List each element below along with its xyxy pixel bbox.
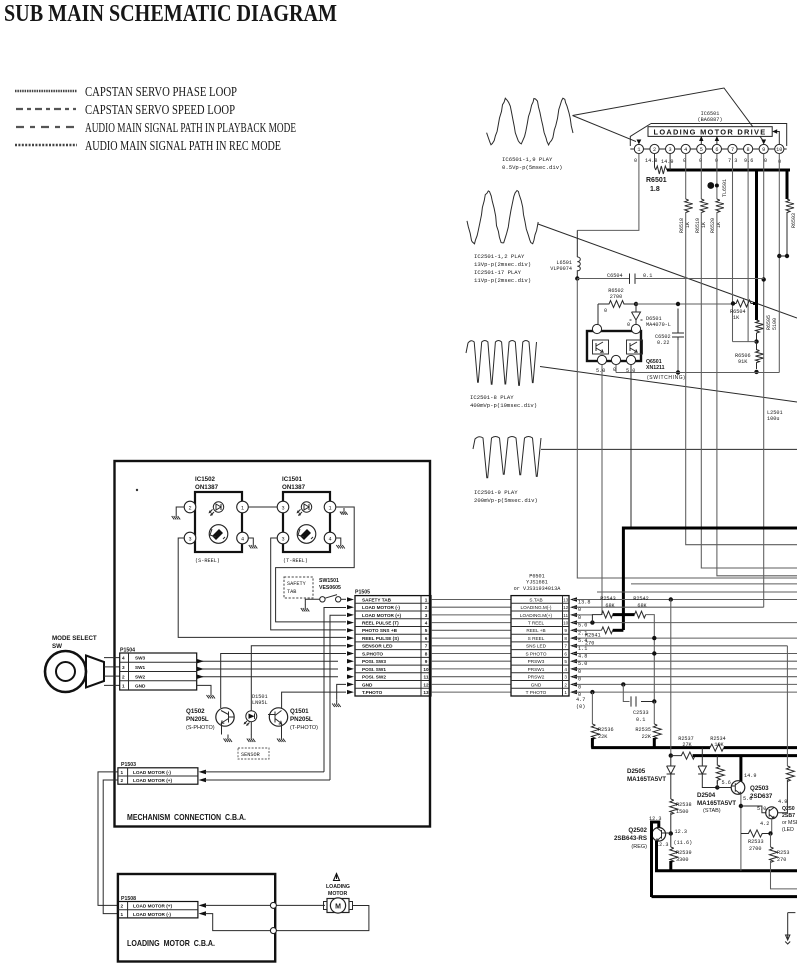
wire PRSW2 row3: [573, 676, 797, 678]
svg-text:R2536: R2536: [598, 727, 614, 733]
svg-text:27K: 27K: [682, 742, 692, 748]
svg-text:11: 11: [563, 613, 568, 618]
svg-text:0: 0: [604, 308, 607, 314]
svg-text:1.8: 1.8: [650, 186, 660, 193]
Q6501 pin bottom3: [626, 355, 635, 364]
svg-text:SENSOR LED: SENSOR LED: [362, 644, 393, 649]
wire pin5 rail: [700, 154, 702, 199]
svg-text:12: 12: [563, 605, 569, 610]
wire Q1502 collector row8: [221, 654, 346, 709]
svg-text:3: 3: [281, 506, 284, 512]
wire C2533 down to R2535: [653, 702, 655, 725]
svg-text:IC2501-8 PLAY: IC2501-8 PLAY: [470, 394, 514, 401]
wire IC1501 pin3 row5: [271, 538, 346, 630]
ground D1501: [247, 735, 256, 743]
wire GND row2: [573, 683, 797, 685]
IC1501 box: [283, 492, 330, 552]
svg-text:LOAD MOTOR (+): LOAD MOTOR (+): [133, 778, 173, 783]
R6502 label: [608, 288, 624, 300]
resistor R2540: [786, 766, 794, 781]
mode select switch: [45, 651, 104, 692]
wire C6504 net: [577, 278, 629, 280]
svg-text:7: 7: [564, 644, 567, 649]
svg-text:4: 4: [122, 656, 125, 661]
svg-text:(LED: (LED: [782, 827, 794, 833]
R6501 label: [646, 177, 667, 193]
C6504 labels: [607, 273, 652, 279]
wire P1504 SW3 to row9: [197, 660, 338, 662]
pin10 feedback wire with arrow: [774, 132, 780, 145]
wire REEL +B row9: [573, 629, 602, 631]
svg-text:0: 0: [578, 684, 581, 690]
svg-text:SW1: SW1: [135, 665, 146, 670]
resistor R6505: [756, 320, 764, 333]
svg-text:9: 9: [425, 659, 428, 664]
wire pin5 rail lower: [701, 212, 797, 568]
diode D2504: [698, 748, 706, 778]
ground Q1502: [224, 735, 233, 743]
svg-text:MA4070-L: MA4070-L: [646, 322, 671, 328]
svg-text:0.5Vp-p(5msec.div): 0.5Vp-p(5msec.div): [502, 164, 562, 171]
thick Q2503 collector: [739, 756, 742, 782]
thick Q2502 emitter path: [655, 841, 658, 871]
wire P1504 GND to ground: [197, 685, 211, 691]
thick bottom bus A: [655, 869, 797, 872]
svg-text:P1505: P1505: [355, 590, 370, 596]
svg-text:1: 1: [122, 684, 125, 689]
arrow SW3: [197, 659, 204, 663]
R2535 label: [635, 727, 651, 740]
svg-text:2: 2: [121, 778, 124, 783]
junction dot Q2502 base: [669, 831, 673, 835]
thick right resistor R6503: [786, 170, 789, 199]
svg-text:1500: 1500: [676, 809, 688, 815]
svg-text:1: 1: [121, 770, 124, 775]
svg-text:IC1502: IC1502: [195, 476, 216, 483]
wire Q1501 collector row13: [282, 692, 346, 708]
page exit arrow bottom right: [785, 913, 795, 944]
IC6501 label: [698, 111, 723, 123]
safety tab text: [287, 581, 307, 595]
small ground on pin1 wire: [340, 508, 348, 515]
wire base to Q2503: [717, 781, 731, 788]
arrow SW1: [197, 667, 204, 671]
IC1501 pin 3: [277, 532, 289, 544]
svg-text:(0): (0): [576, 704, 585, 710]
wire D2505 to R2538: [670, 779, 672, 799]
svg-text:5.0: 5.0: [743, 796, 752, 802]
resistor R6506: [756, 342, 764, 369]
svg-text:SW: SW: [52, 643, 62, 650]
svg-text:2: 2: [122, 674, 125, 679]
Q6501 package: [587, 331, 641, 361]
svg-text:C2533: C2533: [633, 710, 649, 716]
D2505 label: [627, 768, 666, 783]
Q6501 pin bottom2: [611, 355, 620, 364]
diode D2505: [667, 756, 675, 779]
wire row1 down to R2536: [591, 692, 593, 724]
resistor R2533: [741, 830, 770, 837]
junction TL6501 dots: [707, 182, 714, 189]
R6506 label: [735, 353, 751, 365]
svg-text:R2533: R2533: [748, 839, 764, 845]
svg-text:1K: 1K: [701, 222, 707, 228]
svg-text:POSI. SW2: POSI. SW2: [362, 675, 386, 680]
svg-text:10: 10: [423, 667, 429, 672]
wire pin4 rail: [685, 154, 687, 199]
loading motor drive box: [648, 127, 772, 137]
svg-text:R253: R253: [777, 850, 789, 856]
svg-text:S.PHOTO: S.PHOTO: [362, 651, 383, 656]
svg-text:Q1502: Q1502: [186, 708, 205, 715]
wire PRSW1 row4: [573, 668, 797, 670]
svg-text:T.PHOTO: T.PHOTO: [362, 690, 383, 695]
svg-text:SW2: SW2: [135, 674, 146, 679]
svg-text:IC6501-1,9 PLAY: IC6501-1,9 PLAY: [502, 156, 553, 163]
svg-text:ON1387: ON1387: [195, 484, 219, 491]
wire C6502 down: [677, 340, 679, 373]
arrow into P1508 row2: [199, 903, 207, 908]
wire pin8 rail: [747, 154, 749, 342]
svg-text:22K: 22K: [642, 734, 652, 740]
wire L6501 rail down: [577, 279, 797, 579]
thick Q2502 collector path: [652, 822, 659, 897]
wire pin10 rail: [778, 154, 780, 373]
IC1501 pin 2: [277, 501, 289, 513]
waveform label IC2501-8: [470, 394, 537, 409]
wire switch to row1: [341, 598, 346, 600]
IC1502 pin 3: [184, 532, 196, 544]
svg-text:VLP0074: VLP0074: [550, 266, 572, 272]
IC1502 LED: [209, 502, 223, 515]
IC1501 pin 1: [324, 501, 336, 513]
svg-text:LOAD MOTOR (+): LOAD MOTOR (+): [133, 904, 173, 909]
svg-text:(11.6): (11.6): [674, 840, 693, 846]
waveform label IC2501-1,2: [474, 253, 531, 284]
svg-text:5.6: 5.6: [722, 780, 731, 786]
wire SNS LED row7: [573, 645, 787, 647]
svg-text:POSI. SW3: POSI. SW3: [362, 659, 386, 664]
svg-text:R6501: R6501: [646, 177, 667, 184]
IC1502 label: [195, 476, 219, 491]
svg-text:4.7: 4.7: [576, 697, 585, 703]
svg-text:PN205L: PN205L: [186, 716, 209, 723]
svg-text:Q250: Q250: [782, 806, 795, 812]
svg-text:S.TAB: S.TAB: [529, 597, 542, 602]
IC6501 block outline: [630, 124, 786, 147]
wire IC1501 pin1 right: [276, 507, 355, 622]
wire D1501 cathode ground: [250, 722, 252, 735]
IC1502 pin 4: [237, 532, 249, 544]
R2534 label: [710, 736, 726, 748]
junction dot R2537 left: [669, 753, 673, 757]
svg-text:6: 6: [564, 651, 567, 656]
svg-text:M: M: [335, 903, 341, 910]
svg-text:SENSOR: SENSOR: [241, 752, 260, 758]
wire T PHOTO row1: [573, 691, 797, 693]
svg-text:C6504: C6504: [607, 273, 623, 279]
wire IC1501 pin4 to ground: [336, 538, 341, 541]
wire right band 592: [597, 591, 797, 593]
open junction on box edge top: [270, 902, 276, 908]
resistor R6501: [655, 154, 667, 174]
wires P1505 to P6501: [431, 600, 511, 693]
resistor R6502: [598, 301, 635, 308]
svg-text:8: 8: [564, 636, 567, 641]
waveform IC6501-1,9 PLAY: [487, 98, 573, 145]
wire row13 rail down to D2505: [670, 600, 672, 756]
thick bottom bus B: [652, 895, 797, 898]
junction dot L6501: [575, 276, 579, 280]
safety tab box: [284, 577, 313, 598]
wire motor loop: [205, 906, 369, 931]
arrow into P1503 row1: [199, 770, 207, 775]
svg-text:R2539: R2539: [676, 850, 692, 856]
svg-text:PRSW2: PRSW2: [528, 675, 545, 680]
Q6501 pin top2: [631, 324, 640, 333]
svg-text:5: 5: [700, 147, 703, 153]
transistor Q1502: [216, 708, 235, 726]
IC1501 label: [282, 476, 306, 491]
svg-text:3: 3: [425, 613, 428, 618]
svg-text:9: 9: [564, 628, 567, 633]
inductor L6501: [577, 230, 580, 278]
connector P1503: [118, 762, 198, 784]
wire R2532 down right: [771, 861, 797, 889]
svg-text:4.8: 4.8: [578, 654, 587, 660]
R6504 label: [730, 309, 746, 321]
svg-text:4.9: 4.9: [778, 799, 787, 805]
svg-text:SNS LED: SNS LED: [526, 644, 547, 649]
thick bus middle: [623, 527, 797, 530]
svg-text:2: 2: [121, 904, 124, 909]
connector P6501: [511, 574, 569, 697]
wire IC1502 pin2 to ground: [176, 507, 184, 512]
svg-text:0: 0: [627, 322, 630, 328]
Q2503 label: [750, 785, 773, 800]
svg-text:2: 2: [564, 682, 567, 687]
arrow into pin6: [716, 137, 718, 144]
svg-text:400mVp-p(10msec.div): 400mVp-p(10msec.div): [470, 402, 537, 409]
transistor Q2503: [731, 781, 745, 795]
thick bus 2505 lower: [693, 754, 797, 757]
junction dot row13: [669, 597, 673, 601]
wire IC1502 pin3 row6: [178, 538, 346, 637]
junction dot R6504 left: [731, 301, 735, 305]
ground P1504: [207, 691, 216, 699]
svg-text:MA165TA5VT: MA165TA5VT: [627, 776, 666, 783]
wire C6504 right: [635, 278, 764, 280]
svg-text:R2542: R2542: [633, 596, 649, 602]
IC1501 pin 4: [324, 532, 336, 544]
svg-text:2700: 2700: [610, 294, 622, 300]
arrow onto pin1: [637, 140, 642, 145]
svg-text:YJS1681: YJS1681: [526, 580, 548, 586]
svg-text:9: 9: [762, 147, 765, 153]
Q2503 values: [743, 773, 756, 802]
Q6501 label: [646, 359, 665, 371]
svg-text:Q2502: Q2502: [628, 827, 647, 834]
svg-text:or VJS31934013A: or VJS31934013A: [514, 586, 562, 592]
D1501 label: [252, 694, 268, 706]
svg-text:TAB: TAB: [287, 589, 296, 595]
wire P1504 SW2 to row11: [197, 676, 338, 678]
legend swatch capstan servo phase loop: [15, 90, 77, 93]
svg-text:T REEL: T REEL: [528, 621, 545, 626]
L2501 label: [767, 410, 783, 422]
SW1501 label: [319, 578, 341, 591]
ground row12: [332, 700, 341, 708]
connector P1508: [118, 896, 198, 918]
resistor R2536: [591, 724, 599, 739]
pointer line waveform2 diagonal: [538, 224, 797, 318]
loading motor warning mark: [334, 873, 340, 881]
L6501 label: [550, 260, 572, 272]
wire R2538 to junction: [670, 813, 672, 834]
svg-text:1: 1: [328, 506, 331, 512]
capacitor C6502: [672, 309, 684, 341]
junction dot C6502 top: [676, 302, 680, 306]
svg-text:SW3: SW3: [135, 656, 146, 661]
svg-text:MODE SELECT: MODE SELECT: [52, 635, 97, 642]
R2536 label: [598, 727, 614, 740]
svg-text:SAFETY TAB: SAFETY TAB: [362, 597, 392, 602]
Q6501 pin bottom1: [597, 355, 606, 364]
svg-text:2SD637: 2SD637: [750, 793, 773, 800]
svg-text:8: 8: [425, 651, 428, 656]
svg-text:(BA6887): (BA6887): [698, 117, 723, 123]
svg-text:0: 0: [578, 677, 581, 683]
arrows at P6501: [570, 597, 577, 694]
svg-text:5: 5: [425, 628, 428, 633]
svg-text:LN95L: LN95L: [252, 700, 268, 706]
transistor Q2502: [652, 828, 671, 842]
ground IC1501 pin4: [336, 541, 345, 549]
svg-text:68K: 68K: [637, 603, 647, 609]
stray dot: [136, 489, 138, 491]
wire right band 583.9: [631, 583, 797, 585]
svg-text:10: 10: [776, 147, 782, 153]
Q2502 values: [649, 816, 692, 848]
svg-text:91K: 91K: [738, 359, 748, 365]
zener diode D6501: [630, 304, 643, 326]
thick R2539 to bus: [669, 861, 672, 871]
svg-text:9.6: 9.6: [744, 158, 753, 164]
arrows into P1505: [347, 597, 354, 694]
wire pin1 down-left to L6501: [577, 154, 639, 231]
junction dot C2533 right: [652, 699, 656, 703]
wire pin6 rail: [716, 154, 718, 199]
junction dot pin10: [777, 254, 781, 258]
thick bus 2505 upper: [591, 746, 710, 749]
svg-text:1: 1: [425, 597, 428, 602]
svg-text:3: 3: [188, 537, 191, 543]
svg-text:SUB MAIN SCHEMATIC DIAGRAM: SUB MAIN SCHEMATIC DIAGRAM: [4, 1, 337, 27]
resistor R2534: [710, 744, 724, 751]
svg-text:5.0: 5.0: [757, 806, 766, 812]
R2542 label: [633, 596, 649, 609]
C2533 labels: [633, 710, 649, 723]
wire pin6 rail lower: [717, 212, 797, 576]
svg-text:3: 3: [669, 147, 672, 153]
wires mode select to P1504: [104, 658, 120, 686]
vertical resistor R2534b: [716, 756, 724, 784]
svg-text:REEL +B: REEL +B: [526, 628, 545, 633]
svg-text:LOADING MOTOR DRIVE: LOADING MOTOR DRIVE: [654, 129, 767, 136]
svg-text:13.8: 13.8: [578, 600, 590, 606]
svg-text:R2543: R2543: [600, 596, 616, 602]
IC1501 phototransistor: [297, 525, 316, 544]
ground SW1501: [301, 604, 310, 612]
svg-text:LOADING.M(-): LOADING.M(-): [521, 605, 552, 610]
svg-text:REEL PULSE (T): REEL PULSE (T): [362, 621, 399, 626]
legend swatch audio main signal path in rec mode: [15, 144, 77, 146]
pointer line waveform3 diagonal: [540, 367, 797, 403]
IC6501 pin numbers: [637, 147, 782, 153]
resistor R2532: [770, 847, 778, 862]
svg-text:(S-REEL): (S-REEL): [195, 558, 220, 564]
sensor box: [238, 748, 269, 759]
svg-text:IC2501-17 PLAY: IC2501-17 PLAY: [474, 269, 522, 276]
svg-text:0: 0: [578, 607, 581, 613]
svg-text:PN205L: PN205L: [290, 716, 313, 723]
svg-text:TL6501: TL6501: [722, 179, 728, 197]
wire P1504 SW1 to row10: [197, 668, 338, 670]
Q2504 labels: [782, 806, 797, 833]
svg-text:(REG): (REG): [631, 844, 647, 850]
wire pin4 rail lower: [686, 212, 797, 545]
switch SW1501: [320, 595, 341, 602]
wire row3 to P1503: [330, 615, 346, 780]
svg-text:6: 6: [425, 636, 428, 641]
svg-text:8: 8: [747, 147, 750, 153]
svg-text:7: 7: [425, 644, 428, 649]
svg-text:MA165TA5VT: MA165TA5VT: [697, 800, 736, 807]
capacitor C6504: [630, 274, 636, 284]
Q6501 values: [596, 308, 635, 374]
svg-text:CAPSTAN SERVO PHASE LOOP: CAPSTAN SERVO PHASE LOOP: [85, 84, 237, 99]
wire row2 down to C2533: [623, 684, 629, 701]
svg-text:100u: 100u: [767, 416, 779, 422]
wire pin9 rail: [763, 154, 765, 608]
wire junction to R2532: [770, 834, 772, 848]
svg-text:3: 3: [281, 537, 284, 543]
arrow into P1503 row2: [199, 778, 207, 783]
ground Q1501: [277, 735, 286, 743]
wire S PHOTO row6: [573, 653, 797, 655]
resistor R2541: [602, 627, 613, 634]
resistor R6504: [733, 300, 753, 307]
svg-text:IC1501: IC1501: [282, 476, 303, 483]
svg-text:2: 2: [188, 506, 191, 512]
svg-text:(SWITCHING): (SWITCHING): [647, 375, 686, 381]
svg-text:(STAB): (STAB): [703, 808, 721, 814]
svg-text:POSI. SW1: POSI. SW1: [362, 667, 386, 672]
svg-text:PRSW3: PRSW3: [528, 659, 545, 664]
junction dot Q2503 emitter node: [739, 804, 743, 808]
wire R2540 to Q2504: [778, 780, 788, 813]
wire P1508 row2 to motor: [205, 904, 325, 906]
IC1502 pin 2: [184, 501, 196, 513]
pointer line waveform1 to pin1: [573, 116, 637, 142]
Q1502 label: [186, 708, 215, 731]
svg-text:P1503: P1503: [121, 762, 136, 768]
thick bus vertical to R2541: [622, 527, 625, 631]
svg-text:or MSE: or MSE: [782, 820, 797, 826]
wire P1503 row1 right: [205, 771, 324, 773]
svg-text:R2535: R2535: [635, 727, 651, 733]
wire P1503 row2 right: [205, 779, 330, 781]
